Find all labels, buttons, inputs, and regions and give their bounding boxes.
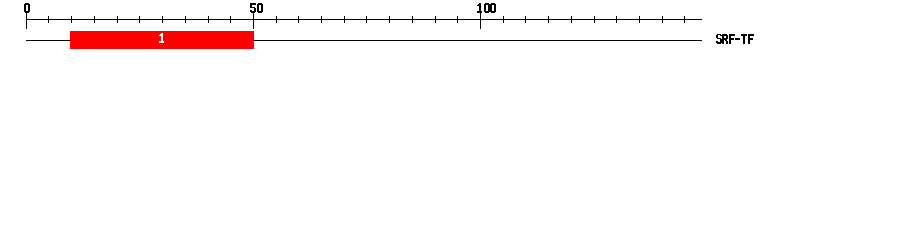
ruler axis line	[26, 19, 702, 20]
ruler label 0	[24, 3, 30, 13]
domain match box (red)	[70, 31, 254, 49]
ruler major tick 100	[480, 13, 481, 29]
ruler label 100	[477, 3, 496, 13]
ruler major tick 0	[26, 13, 27, 29]
ruler major tick 50	[253, 13, 254, 29]
protein domain diagram: scale ruler, sequence line, SRF-TF domain match	[0, 0, 900, 58]
domain match number 1 (white)	[159, 33, 164, 43]
track label SRF-TF	[716, 34, 754, 44]
ruler minor ticks every 5 residues	[48, 16, 685, 23]
ruler label 50	[250, 3, 263, 13]
sequence line	[26, 40, 702, 41]
